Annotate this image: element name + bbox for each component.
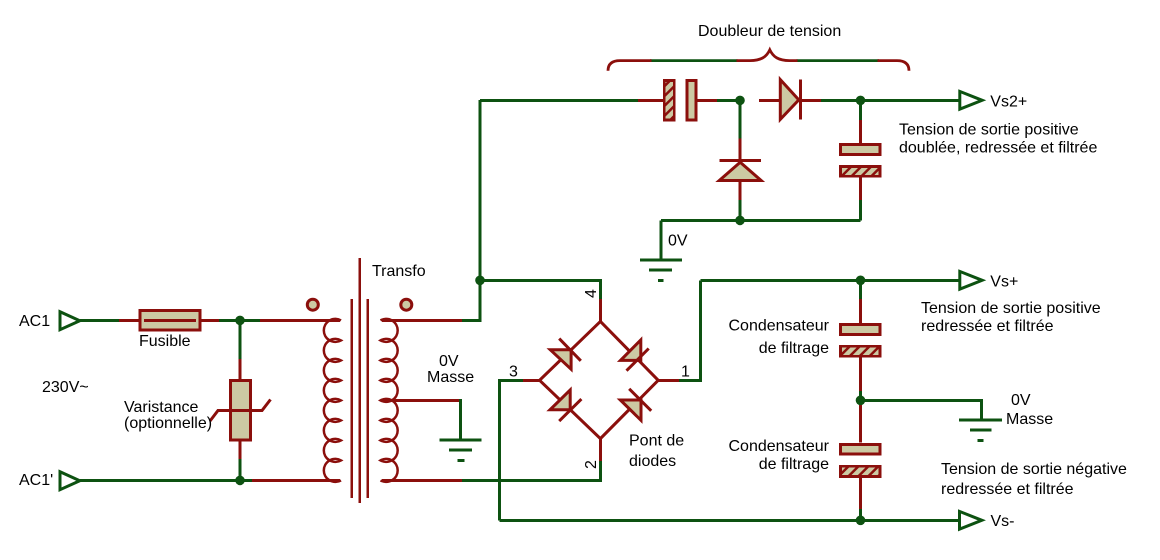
svg-text:Masse: Masse: [427, 369, 474, 386]
node I (C4/Vs-): [856, 516, 866, 526]
wire D2 top lead (red): [739, 139, 742, 161]
wire varistor top connection: [239, 320, 242, 361]
wire AC1' input to node B: [80, 479, 254, 482]
wire node C to D1 (red): [759, 99, 781, 102]
wire varistor top lead (red): [239, 359, 242, 380]
terminal AC1: [60, 312, 80, 330]
svg-text:0V: 0V: [439, 353, 459, 370]
wire node D to Vs2+ arrow: [861, 99, 960, 102]
transformer primary winding: [324, 319, 341, 482]
wire C2 bottom lead (red): [859, 178, 862, 203]
wire D2 to node E: [739, 200, 742, 220]
wire bridge pin3 lead (red): [521, 379, 540, 382]
svg-text:de filtrage: de filtrage: [759, 456, 829, 473]
svg-text:redressée et filtrée: redressée et filtrée: [941, 481, 1074, 498]
transformer TR1: [307, 258, 412, 503]
wire bridge pin2 lead (red): [599, 439, 602, 461]
wire C3 top lead (red): [859, 297, 862, 324]
capacitor C2 (doubler filter, polarized): [839, 145, 882, 178]
transformer core: [350, 299, 353, 498]
svg-text:Transfo: Transfo: [372, 263, 426, 280]
bridge diode bottom-left: [550, 390, 570, 410]
node D (D1/C2/Vs2+): [856, 96, 866, 106]
capacitor C3 (filter +, polarized): [839, 324, 882, 357]
wire secondary bottom lead (red): [382, 479, 464, 482]
wire C3 bottom lead (red): [859, 357, 862, 393]
svg-text:3: 3: [509, 364, 518, 381]
bridge diode top-right: [621, 340, 641, 361]
node H (C3/C4/ground): [856, 396, 866, 406]
svg-text:Pont de: Pont de: [629, 433, 684, 450]
wire secondary center tap lead (red): [382, 399, 462, 402]
fuse F1: [140, 310, 200, 330]
svg-text:diodes: diodes: [629, 453, 676, 470]
svg-text:1: 1: [681, 364, 690, 381]
wire primary top lead (red): [260, 319, 340, 322]
svg-text:Vs2+: Vs2+: [990, 93, 1027, 110]
svg-text:Condensateur: Condensateur: [728, 318, 829, 335]
wire Vs+ rail: [700, 279, 959, 282]
wire C4 bottom lead (red): [859, 477, 862, 511]
wire doubler top rail: [480, 99, 640, 102]
brace Doubleur de tension: [608, 50, 909, 71]
wire D1 to node D: [821, 99, 861, 102]
svg-text:AC1: AC1: [19, 313, 50, 330]
node C (C1/D1/D2): [735, 96, 745, 106]
transformer phase dot primary: [307, 299, 318, 310]
wire node G to C3: [859, 280, 862, 299]
svg-text:de filtrage: de filtrage: [759, 340, 829, 357]
node A (fuse/varistor): [235, 316, 245, 326]
svg-text:Vs+: Vs+: [990, 273, 1018, 290]
svg-text:redressée et filtrée: redressée et filtrée: [921, 318, 1054, 335]
wire fuse lead right (red): [200, 319, 221, 322]
wire to doubler ground: [660, 220, 663, 258]
wire bridge pin1 lead (red): [658, 379, 681, 382]
wire pin1 to Vs+ rail: [679, 280, 700, 380]
wire center tap to ground: [459, 399, 462, 440]
wire C4 to Vs- rail: [859, 509, 862, 520]
wire node H to right ground: [861, 400, 982, 419]
ground right 0V: [959, 420, 1002, 441]
node F (secondary/bridge riser): [475, 276, 485, 286]
svg-text:(optionnelle): (optionnelle): [124, 415, 212, 432]
wire secondary top to doubler riser: [462, 100, 480, 320]
wire Vs- rail: [499, 519, 959, 522]
svg-text:0V: 0V: [1011, 392, 1031, 409]
varistor RV1: [210, 380, 271, 440]
terminal Vs+: [960, 271, 982, 289]
transformer secondary winding: [381, 319, 398, 482]
svg-text:doublée, redressée et filtrée: doublée, redressée et filtrée: [899, 140, 1097, 157]
wire secondary top lead (red): [382, 319, 464, 322]
svg-text:Tension de sortie négative: Tension de sortie négative: [941, 461, 1127, 478]
bridge diode bottom-right: [620, 400, 641, 420]
svg-text:Varistance: Varistance: [124, 399, 199, 416]
capacitor C4 (filter -, polarized): [839, 445, 882, 478]
diode D2 (to 0V): [719, 161, 761, 181]
wire varistor bottom lead (red): [239, 441, 242, 461]
ground doubler 0V: [640, 260, 682, 280]
terminal Vs-: [960, 511, 982, 529]
wire bridge pin4 lead (red): [599, 299, 602, 321]
capacitor C1 (series, polarized): [663, 79, 696, 122]
svg-text:Condensateur: Condensateur: [728, 438, 829, 455]
wire primary bottom lead (red): [252, 479, 340, 482]
wire D1 lead right (red): [801, 99, 823, 102]
svg-text:0V: 0V: [668, 233, 688, 250]
wire bridge riser from node F: [480, 280, 601, 301]
wire pin3 to Vs- rail: [499, 380, 523, 520]
wire node D down green: [859, 100, 862, 122]
bridge diode top-left: [550, 350, 571, 369]
terminal AC1': [60, 472, 80, 490]
ground transformer center tap: [439, 440, 481, 460]
diode bridge B1: [540, 321, 659, 438]
wire fuse right to node A: [219, 319, 262, 322]
svg-text:Tension de sortie positive: Tension de sortie positive: [921, 300, 1101, 317]
wire C3 to node H: [859, 391, 862, 400]
wire doubler ground rail: [661, 219, 861, 222]
wire varistor bottom connection: [239, 459, 242, 480]
svg-text:Tension de sortie positive: Tension de sortie positive: [899, 122, 1079, 139]
svg-text:4: 4: [583, 289, 600, 298]
svg-text:AC1': AC1': [19, 472, 53, 489]
svg-text:230V~: 230V~: [42, 379, 89, 396]
node G (Vs+/C3): [856, 276, 866, 286]
node E (D2/ground rail): [735, 216, 745, 226]
wire D2 bottom lead (red): [739, 181, 742, 203]
svg-text:2: 2: [583, 460, 600, 469]
node B (AC1'/varistor): [235, 476, 245, 486]
wire C4 top lead (red): [859, 404, 862, 443]
wire AC1 input to fuse: [80, 319, 121, 322]
wire node C down green: [739, 100, 742, 140]
svg-text:Vs-: Vs-: [991, 513, 1015, 530]
svg-text:Masse: Masse: [1006, 411, 1053, 428]
wire fuse lead left (red): [119, 319, 140, 322]
transformer phase dot secondary: [401, 299, 412, 310]
wire C2 to ground rail: [859, 200, 862, 220]
diode D1: [780, 80, 800, 120]
wire C1 lead right (red): [698, 99, 720, 102]
wire C2 top lead (red): [859, 120, 862, 144]
wire C1 to node C: [717, 99, 740, 102]
wire C1 lead left (red): [638, 99, 664, 102]
wire secondary bottom to bridge pin 2: [462, 459, 600, 480]
svg-text:Fusible: Fusible: [139, 333, 191, 350]
svg-text:Doubleur de tension: Doubleur de tension: [698, 23, 841, 40]
terminal Vs2+: [960, 91, 982, 109]
